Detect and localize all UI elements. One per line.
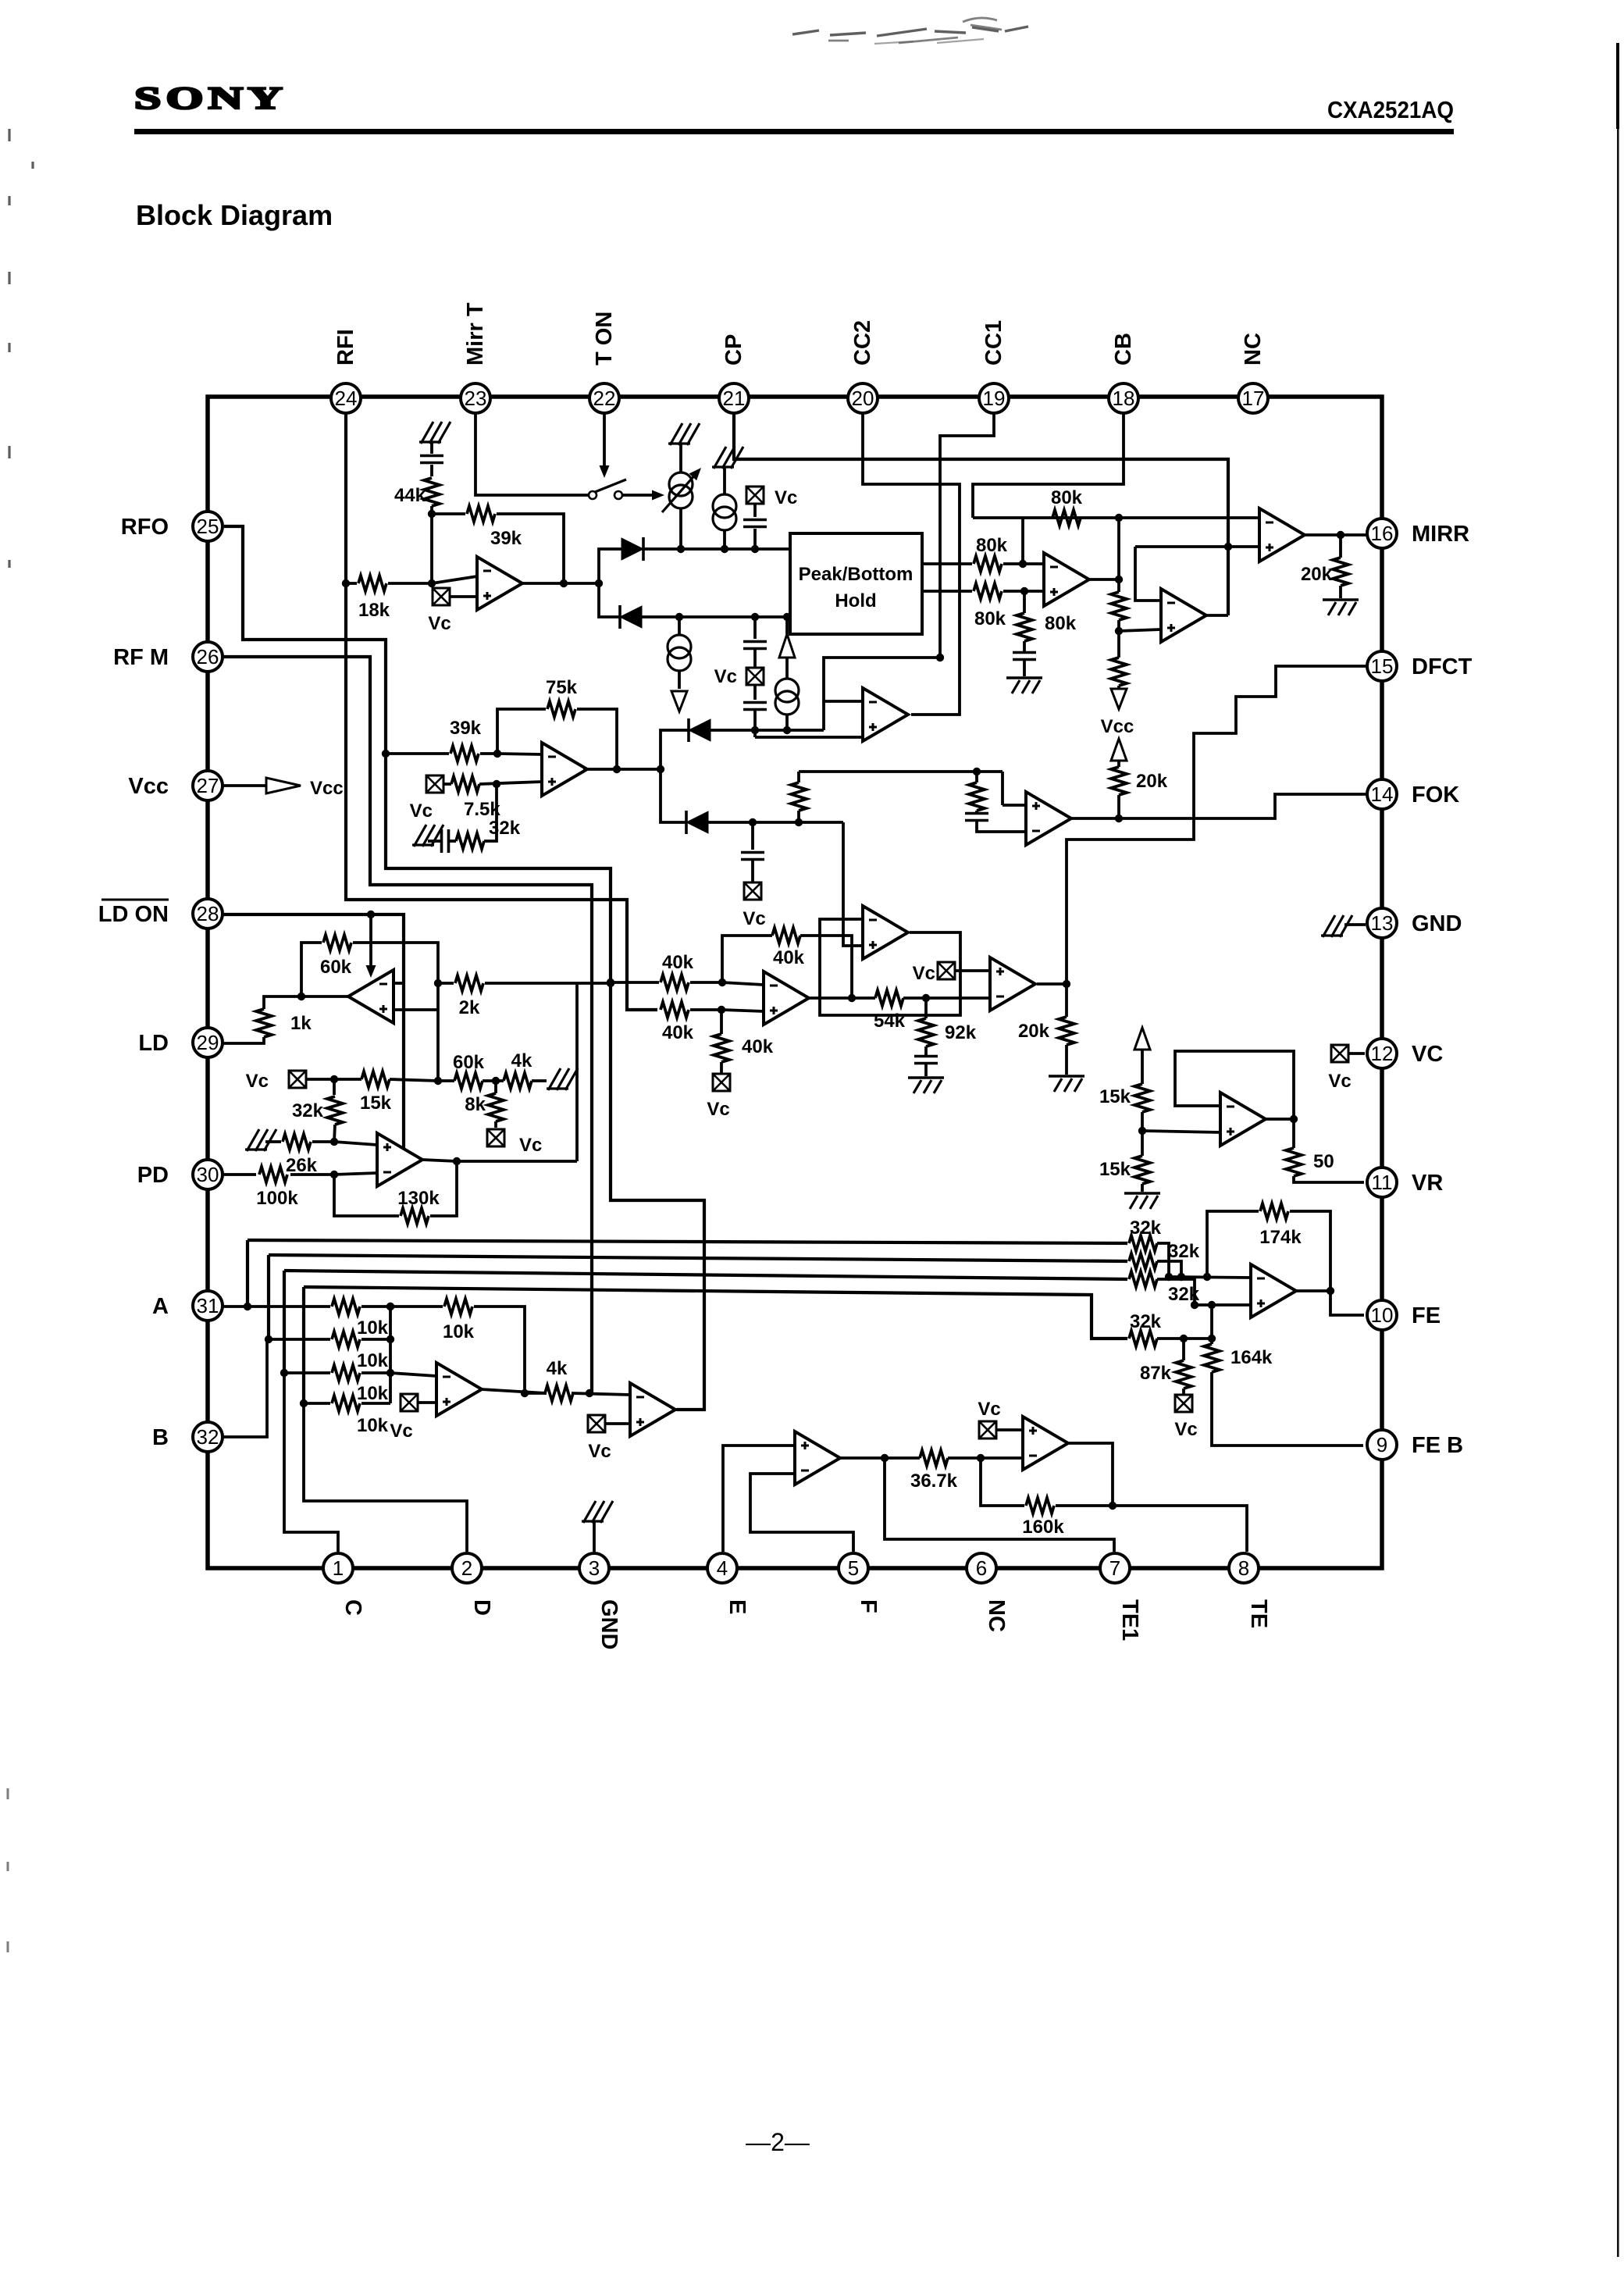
wire D4 bottom row bbox=[661, 769, 686, 822]
resistor 20k (MIRR load) bbox=[1339, 535, 1342, 558]
node D bus junction bbox=[300, 1399, 308, 1407]
wire lower bottom branch bbox=[599, 583, 620, 617]
svg-text:Vc: Vc bbox=[978, 1399, 1000, 1420]
svg-text:7: 7 bbox=[1109, 1556, 1120, 1580]
svg-text:54k: 54k bbox=[874, 1011, 906, 1032]
node 44k/39k junction bbox=[428, 510, 436, 518]
svg-text:D: D bbox=[469, 1599, 494, 1616]
svg-text:Vc: Vc bbox=[588, 1441, 611, 1462]
svg-text:39k: 39k bbox=[450, 718, 482, 739]
resistor 10k (feedback) bbox=[444, 1299, 472, 1314]
wire FE + input row bbox=[1195, 1303, 1251, 1307]
node LD ON arrow tap bbox=[367, 911, 375, 918]
node D3 row current source bbox=[783, 726, 791, 734]
resistor 80k (lower hold output) bbox=[974, 583, 1002, 599]
Vc and resistor 7.5k into U8 + input bbox=[426, 775, 443, 793]
wire CC1 net from pin 19 bbox=[940, 413, 994, 658]
node 2k to RFO bus bbox=[607, 979, 614, 987]
svg-text:Vc: Vc bbox=[913, 963, 935, 984]
node 26k/32k junction bbox=[330, 1138, 338, 1146]
wire FE - input row bbox=[1169, 1277, 1251, 1278]
svg-text:CP: CP bbox=[721, 334, 746, 365]
op-amp U16 (VR buffer) bbox=[1220, 1093, 1266, 1146]
wire U4 feedback to U3 input row bbox=[1135, 547, 1161, 601]
resistor 20k (FOK pull-up) bbox=[1117, 761, 1120, 767]
wire U17 output to pin 10 bbox=[1296, 1289, 1330, 1292]
ground (variable current source) bbox=[668, 423, 700, 445]
svg-text:Vc: Vc bbox=[1174, 1419, 1197, 1440]
svg-text:25: 25 bbox=[197, 515, 219, 538]
op-amp U3 (MIRR output) bbox=[1259, 508, 1305, 561]
pin 20 (CC2) bbox=[848, 383, 878, 413]
node U14 output bbox=[881, 1454, 889, 1462]
svg-text:NC: NC bbox=[984, 1599, 1009, 1632]
svg-text:20: 20 bbox=[852, 387, 874, 410]
wire U9 feedback loop bbox=[820, 919, 960, 1015]
resistor 15k (lower) bbox=[1141, 1131, 1144, 1156]
svg-text:32k: 32k bbox=[1130, 1311, 1162, 1332]
svg-text:10: 10 bbox=[1371, 1303, 1394, 1327]
wire E net from pin 4 bbox=[723, 1446, 795, 1552]
resistor 44k bbox=[430, 465, 433, 476]
svg-text:A: A bbox=[152, 1294, 169, 1319]
pin 29 (LD) bbox=[193, 1028, 223, 1057]
pin 26 (RF M) bbox=[193, 642, 223, 672]
svg-text:Vc: Vc bbox=[1328, 1071, 1351, 1092]
current source CS2 bbox=[723, 467, 726, 494]
wire CC2 net from pin 20 to hold comparator output bbox=[863, 413, 960, 715]
svg-text:10k: 10k bbox=[357, 1350, 389, 1371]
svg-text:5: 5 bbox=[848, 1556, 859, 1580]
variable current source CS1 bbox=[679, 444, 682, 472]
resistor 10k (A) bbox=[332, 1299, 360, 1314]
resistor 40k (U5 feedback) bbox=[722, 936, 772, 982]
svg-text:GND: GND bbox=[1412, 911, 1462, 936]
pin 12 (VC) bbox=[1367, 1039, 1397, 1068]
svg-text:80k: 80k bbox=[1045, 613, 1077, 634]
svg-text:LD ON: LD ON bbox=[98, 902, 169, 927]
svg-text:40k: 40k bbox=[773, 947, 805, 968]
svg-text:92k: 92k bbox=[945, 1022, 977, 1043]
switch (T ON) with pin 23 wire bbox=[475, 413, 588, 495]
node U11 output bbox=[453, 1157, 461, 1165]
resistor 39k (feedback) bbox=[432, 512, 465, 515]
svg-text:31: 31 bbox=[197, 1294, 219, 1317]
wire U15 - input bbox=[981, 1456, 1023, 1460]
resistor 80k (U2 feedback) bbox=[1052, 510, 1081, 526]
op-amp U4 (defect comparator) bbox=[1161, 589, 1206, 642]
resistor 40k divider with Vc bbox=[720, 1010, 723, 1034]
node upper 80k / U2 inverting input bbox=[1019, 560, 1027, 568]
resistor 80k to capacitor and ground at U2 + input bbox=[1023, 591, 1026, 613]
svg-text:26: 26 bbox=[197, 645, 219, 668]
resistor 4k to ground bbox=[496, 1079, 504, 1082]
svg-text:15k: 15k bbox=[1099, 1159, 1131, 1180]
resistor 26k bbox=[265, 1140, 281, 1143]
svg-text:6: 6 bbox=[976, 1556, 987, 1580]
current source CS4 with sink arrow below bottom row bbox=[678, 617, 681, 634]
svg-text:FE B: FE B bbox=[1412, 1433, 1463, 1458]
resistor 174k (U17 feedback) bbox=[1207, 1211, 1259, 1277]
svg-text:75k: 75k bbox=[546, 677, 578, 698]
op-amp F2 (FOK comparator) bbox=[1026, 792, 1071, 845]
pin 23 (Mirr T) bbox=[461, 383, 490, 413]
node C bus junction bbox=[280, 1369, 288, 1377]
resistor 20k (U6 load) bbox=[1065, 984, 1068, 1017]
resistor 10k (B) bbox=[332, 1332, 360, 1347]
svg-text:Hold: Hold bbox=[835, 590, 876, 611]
svg-text:32k: 32k bbox=[1130, 1217, 1162, 1239]
node B bus junction bbox=[265, 1335, 272, 1343]
scan artifact left margin dashes bbox=[9, 129, 33, 568]
pin 18 (CB) bbox=[1109, 383, 1138, 413]
op-amp U10 (laser driver, points left) bbox=[348, 970, 394, 1023]
wire U10 + input column bbox=[394, 1008, 438, 1011]
node T-ON junction at 4k bbox=[586, 1389, 593, 1397]
node peak row / variable current source bbox=[677, 545, 685, 553]
svg-text:Vc: Vc bbox=[743, 908, 765, 929]
svg-text:4: 4 bbox=[717, 1556, 728, 1580]
capacitor (F2 threshold) bbox=[965, 814, 988, 821]
wire U16 feedback loop bbox=[1265, 1118, 1294, 1121]
resistor 8k bbox=[494, 1081, 497, 1093]
svg-text:60k: 60k bbox=[320, 957, 352, 978]
resistor (F2 threshold) bbox=[975, 772, 978, 783]
node A bus junction bbox=[244, 1303, 251, 1310]
wire 18k to op-amp U1 inverting input bbox=[432, 576, 477, 583]
resistor 40k (row2) bbox=[661, 1002, 689, 1018]
svg-text:27: 27 bbox=[197, 774, 219, 797]
svg-text:14: 14 bbox=[1371, 783, 1394, 806]
pin 25 (RFO) bbox=[193, 512, 223, 541]
node 60k/2k junction bbox=[434, 979, 442, 987]
wire U8 output bbox=[583, 768, 661, 771]
svg-text:TE1: TE1 bbox=[1117, 1599, 1142, 1641]
svg-text:Mirr T: Mirr T bbox=[463, 302, 488, 365]
svg-text:80k: 80k bbox=[1051, 487, 1083, 508]
Vc into U13 + input bbox=[588, 1415, 605, 1432]
pin 28 (LD ON) bbox=[193, 899, 223, 929]
svg-text:20k: 20k bbox=[1301, 564, 1333, 585]
node U1 output feedback tap bbox=[560, 579, 568, 587]
svg-text:8: 8 bbox=[1238, 1556, 1249, 1580]
node U8 + input bbox=[493, 780, 500, 788]
Vc below 8k bbox=[487, 1129, 504, 1146]
svg-text:23: 23 bbox=[465, 387, 487, 410]
pin 17 (NC) bbox=[1238, 383, 1268, 413]
pin 31 (A) bbox=[193, 1291, 223, 1321]
pin 21 (CP) bbox=[719, 383, 749, 413]
wire U5 inputs bbox=[722, 982, 764, 985]
svg-text:2: 2 bbox=[461, 1556, 472, 1580]
svg-text:Vc: Vc bbox=[707, 1099, 729, 1120]
svg-text:17: 17 bbox=[1242, 387, 1265, 410]
svg-text:B: B bbox=[152, 1425, 169, 1450]
wire C row bbox=[284, 1371, 330, 1374]
pin 6 (NC) bbox=[967, 1553, 996, 1583]
svg-text:VR: VR bbox=[1412, 1171, 1443, 1196]
wire into U8 - input bbox=[497, 754, 542, 754]
capacitor (U2 + input) bbox=[1013, 653, 1036, 660]
svg-text:44k: 44k bbox=[394, 485, 426, 506]
wire U4 + input from divider bbox=[1119, 629, 1161, 631]
wire into U12 - input bbox=[390, 1373, 436, 1376]
svg-text:E: E bbox=[725, 1599, 750, 1614]
resistor above D4 row to F2 network bbox=[797, 811, 800, 822]
op-amp U7 (bottom hold amp) bbox=[863, 688, 908, 741]
wire bus A bbox=[246, 1240, 249, 1307]
pin 27 (Vcc) bbox=[193, 771, 223, 800]
pin 19 (CC1) bbox=[979, 383, 1009, 413]
resistor 60k (U10 feedback) bbox=[301, 943, 322, 996]
wire U2 output to feedback and divider bbox=[1088, 578, 1119, 581]
wire RFI net from pin 24 down and across to 40k input row bbox=[346, 413, 657, 1010]
resistor 32k with capacitor and ground at U8 + input bbox=[484, 784, 497, 841]
svg-text:32k: 32k bbox=[489, 818, 521, 839]
Vc and resistor 15k row bbox=[289, 1071, 306, 1088]
Vc reference into U1 non-inverting input bbox=[433, 588, 450, 605]
wire second-stage diode rows from U8 output bbox=[661, 730, 689, 769]
ground (15k divider) bbox=[1124, 1193, 1160, 1209]
resistor 75k (RF2 feedback) bbox=[497, 709, 546, 754]
node 80k feedback / U2 output column bbox=[1115, 514, 1123, 522]
svg-text:15: 15 bbox=[1371, 654, 1394, 678]
svg-text:GND: GND bbox=[597, 1599, 621, 1649]
wire summing column bbox=[389, 1307, 392, 1403]
svg-text:80k: 80k bbox=[974, 608, 1006, 629]
wire into U11 + input bbox=[334, 1142, 377, 1145]
node lower 80k / U2 non-inverting input bbox=[1020, 587, 1028, 595]
op-amp U11 (PD amp) bbox=[377, 1133, 422, 1186]
svg-text:Vcc: Vcc bbox=[310, 778, 344, 799]
node RF2 inverting input bbox=[493, 750, 501, 758]
svg-text:CB: CB bbox=[1111, 333, 1136, 365]
wire bus C bbox=[283, 1271, 286, 1373]
wire divider to U16 + input bbox=[1142, 1131, 1220, 1132]
wire F2 + input bbox=[1003, 804, 1026, 807]
svg-text:MIRR: MIRR bbox=[1412, 522, 1469, 547]
svg-text:40k: 40k bbox=[662, 952, 694, 973]
svg-text:Block Diagram: Block Diagram bbox=[136, 199, 333, 231]
Vc into U6 + input bbox=[938, 962, 955, 979]
svg-text:Vc: Vc bbox=[410, 800, 433, 822]
resistor 87k to Vc bbox=[1182, 1339, 1185, 1360]
svg-text:18k: 18k bbox=[358, 600, 390, 621]
wire F net from pin 5 bbox=[750, 1474, 853, 1552]
resistor 80k (upper hold output) bbox=[974, 556, 1002, 572]
op-amp U14 (tracking amp) bbox=[795, 1431, 840, 1485]
wire U7 - feedback loop to CC1 node bbox=[824, 658, 940, 701]
node Vc/15k/32k bbox=[330, 1075, 338, 1083]
svg-text:80k: 80k bbox=[976, 535, 1008, 556]
wire U3 output to pin 16 bbox=[1302, 533, 1368, 537]
resistor 32k (D row) bbox=[1129, 1331, 1157, 1346]
svg-text:36.7k: 36.7k bbox=[910, 1471, 958, 1492]
svg-text:10k: 10k bbox=[357, 1383, 389, 1404]
Vc stub at pin 12 bbox=[1331, 1045, 1348, 1062]
op-amp U12 (matrix amp) bbox=[436, 1363, 482, 1416]
header rule bbox=[134, 129, 1454, 134]
svg-text:CC1: CC1 bbox=[981, 320, 1006, 365]
svg-text:8k: 8k bbox=[465, 1094, 486, 1115]
svg-text:10k: 10k bbox=[357, 1415, 389, 1436]
svg-text:DFCT: DFCT bbox=[1412, 654, 1473, 679]
wire D row bbox=[304, 1402, 330, 1405]
node 54k/92k junction bbox=[922, 994, 930, 1002]
op-amp U9 (bottom hold comparator) bbox=[863, 906, 908, 959]
resistor 10k (C) bbox=[332, 1365, 360, 1381]
node D4 divider bbox=[795, 818, 803, 826]
node 18k junction bbox=[428, 579, 436, 587]
svg-text:FOK: FOK bbox=[1412, 783, 1459, 807]
node bottom row / arrow current source bbox=[783, 613, 791, 621]
node U5 - input bbox=[718, 979, 726, 986]
wire U12 output bbox=[481, 1389, 547, 1393]
op-amp U1 (RF amp 1) bbox=[477, 557, 522, 610]
wire A row from pin 31 bbox=[222, 1305, 330, 1308]
wire C to pin 1 bbox=[284, 1373, 338, 1552]
ground (U6 load) bbox=[1049, 1076, 1084, 1092]
wire U11 output bbox=[422, 1160, 457, 1161]
svg-text:13: 13 bbox=[1371, 911, 1394, 935]
arrow into LD op-amp bbox=[369, 914, 372, 967]
svg-text:26k: 26k bbox=[286, 1155, 318, 1176]
op-amp U8 (RF amp 2) bbox=[542, 743, 587, 796]
wire CP net from pin 21 bbox=[734, 413, 1228, 615]
wire U7 + input from Vc capacitor chain bbox=[755, 736, 863, 739]
wire upper peak branch bbox=[599, 549, 621, 583]
svg-text:4k: 4k bbox=[511, 1050, 532, 1071]
Vc coupling capacitor at peak row bbox=[746, 487, 764, 504]
pin 14 (FOK) bbox=[1367, 779, 1397, 809]
svg-text:Peak/Bottom: Peak/Bottom bbox=[799, 564, 913, 585]
resistor 15k bbox=[361, 1071, 390, 1087]
capacitor (44k bias chain) bbox=[430, 442, 433, 454]
ground (current source CS2) bbox=[712, 447, 743, 469]
node 75k feedback tap bbox=[613, 765, 621, 773]
capacitor chain below bottom row (cap,Vc,cap) bbox=[753, 617, 757, 639]
wire into U11 - input bbox=[334, 1173, 377, 1175]
wire B row bbox=[267, 1338, 330, 1341]
Vcc arrow into 15k divider bbox=[1134, 1028, 1150, 1050]
wire 40k row1 to U5 bbox=[611, 981, 659, 984]
svg-text:Vc: Vc bbox=[390, 1421, 412, 1442]
svg-text:Vc: Vc bbox=[519, 1135, 542, 1156]
resistor 100k from pin 30 bbox=[222, 1173, 256, 1176]
svg-text:RF M: RF M bbox=[113, 645, 169, 670]
wire D3 row to U7 loop bbox=[710, 729, 824, 732]
svg-text:15k: 15k bbox=[1099, 1086, 1131, 1107]
diode D3 (second peak) bbox=[689, 718, 710, 742]
Vc into U15 + input bbox=[979, 1421, 996, 1438]
pin 11 (VR) bbox=[1367, 1168, 1397, 1197]
node divider mid bbox=[1115, 627, 1123, 635]
svg-text:4k: 4k bbox=[547, 1358, 568, 1379]
wire DFCT net from pin 15 staircase to comparator U6 output bbox=[1067, 666, 1368, 984]
svg-text:FE: FE bbox=[1412, 1303, 1441, 1328]
wire FOK output to pin 14 bbox=[1071, 794, 1368, 818]
svg-text:87k: 87k bbox=[1140, 1363, 1172, 1384]
svg-text:Vc: Vc bbox=[775, 487, 797, 508]
resistor 39k (RF2 input) bbox=[386, 752, 449, 755]
pin 13 (GND) bbox=[1367, 908, 1397, 938]
svg-text:15k: 15k bbox=[360, 1093, 392, 1114]
svg-text:RFI: RFI bbox=[333, 329, 358, 365]
svg-text:Vc: Vc bbox=[428, 613, 451, 634]
ground (44k bias chain) bbox=[419, 422, 451, 444]
resistor 164k to FE B bbox=[1210, 1339, 1213, 1344]
svg-text:32: 32 bbox=[197, 1425, 219, 1449]
wire Peak/Bottom upper output row bbox=[922, 562, 972, 565]
svg-text:16: 16 bbox=[1371, 522, 1394, 545]
node FOK output / pull-up bbox=[1115, 815, 1123, 822]
ground (U2 + input) bbox=[1023, 660, 1026, 676]
svg-text:RFO: RFO bbox=[121, 515, 169, 540]
node MIRR output bbox=[1337, 531, 1344, 539]
svg-text:100k: 100k bbox=[256, 1188, 298, 1209]
capacitor and Vc below D4 row bbox=[751, 822, 754, 850]
resistor 2k bbox=[438, 982, 454, 985]
resistor 36.7k bbox=[920, 1450, 948, 1466]
resistor 32k (PD) bbox=[333, 1079, 336, 1095]
node bottom row / Vc capacitor chain bbox=[751, 613, 759, 621]
pin 32 (B) bbox=[193, 1422, 223, 1452]
svg-text:NC: NC bbox=[1241, 333, 1266, 365]
svg-text:9: 9 bbox=[1376, 1433, 1387, 1456]
current sink arrow above D3 row bbox=[779, 634, 795, 658]
wire U10 - input to LD ON column bbox=[394, 982, 404, 985]
wire U10 output bbox=[301, 995, 348, 998]
resistor (U2 output divider lower) bbox=[1117, 631, 1120, 658]
pin 22 (T ON) bbox=[589, 383, 619, 413]
wire U5 output row bbox=[808, 996, 875, 1000]
resistor 60k (lower) bbox=[438, 1079, 454, 1082]
resistor 1k to pin 29 bbox=[264, 996, 301, 1009]
op-amp U15 (tracking error) bbox=[1023, 1417, 1068, 1470]
resistor 18k bbox=[346, 582, 357, 585]
svg-text:PD: PD bbox=[137, 1163, 169, 1188]
resistor 160k (U15 feedback) bbox=[981, 1458, 1024, 1506]
svg-text:40k: 40k bbox=[742, 1036, 774, 1057]
svg-text:160k: 160k bbox=[1022, 1517, 1064, 1538]
svg-text:50: 50 bbox=[1313, 1151, 1334, 1172]
wire T ON arrow from pin 22 bbox=[603, 413, 606, 467]
op-amp U13 (focus matrix) bbox=[630, 1383, 675, 1436]
wire U13 output up right bus bbox=[675, 1408, 704, 1411]
resistor 32k (B row) bbox=[1129, 1253, 1157, 1269]
Peak/Bottom Hold block bbox=[790, 533, 922, 634]
op-amp U6 (focus OK comparator) bbox=[990, 957, 1035, 1011]
svg-text:30: 30 bbox=[197, 1163, 219, 1186]
svg-text:10k: 10k bbox=[357, 1317, 389, 1339]
node 15k/60k junction bbox=[434, 1077, 442, 1085]
wire LD ON net from pin 28 bbox=[223, 914, 404, 1162]
wire U1 output bbox=[522, 582, 599, 585]
scan artifact top speckles bbox=[792, 27, 1028, 36]
svg-text:3: 3 bbox=[589, 1556, 600, 1580]
wire RFO net from pin 25 routed to 39k input and lower bus bbox=[224, 526, 704, 1410]
wire U6 output bbox=[1037, 982, 1067, 986]
wire bottom row into Peak/Bottom Hold bbox=[642, 615, 790, 619]
wire 80k feedback row to U3 input bbox=[973, 516, 1259, 519]
node RFI tap at 18k bbox=[342, 579, 350, 587]
node 10k feedback tap bbox=[386, 1303, 394, 1310]
svg-text:TE: TE bbox=[1246, 1599, 1271, 1628]
node U1 output diode split bbox=[595, 579, 603, 587]
pin 5 (F) bbox=[839, 1553, 868, 1583]
Vc into U12 + input bbox=[401, 1394, 418, 1411]
svg-text:18: 18 bbox=[1113, 387, 1135, 410]
